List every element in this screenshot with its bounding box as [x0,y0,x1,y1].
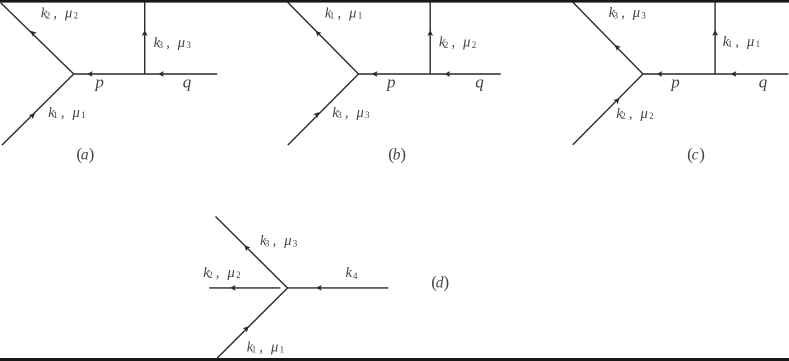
svg-text:3: 3 [159,40,164,50]
svg-text:1: 1 [358,11,363,21]
svg-text:): ) [89,145,95,164]
svg-text:,: , [735,34,739,50]
svg-text:1: 1 [756,39,761,49]
svg-text:2: 2 [649,111,654,121]
svg-text:1: 1 [728,39,733,49]
svg-text:3: 3 [186,40,191,50]
svg-text:3: 3 [614,10,619,20]
svg-text:,: , [216,265,220,281]
svg-text:): ) [444,273,450,292]
svg-text:q: q [183,73,192,92]
svg-text:1: 1 [330,11,335,21]
svg-text:): ) [699,145,705,164]
svg-text:2: 2 [444,40,449,50]
svg-text:2: 2 [208,270,213,280]
svg-text:3: 3 [293,238,298,248]
svg-text:2: 2 [236,270,241,280]
svg-text:p: p [386,73,396,92]
svg-text:): ) [400,145,406,164]
svg-text:c: c [692,147,699,164]
svg-text:p: p [670,73,680,92]
svg-text:p: p [94,73,104,92]
svg-text:μ: μ [746,34,754,50]
svg-text:q: q [475,73,484,92]
svg-text:μ: μ [227,265,235,281]
svg-text:,: , [338,5,342,21]
svg-text:1: 1 [81,110,86,120]
svg-text:2: 2 [472,40,477,50]
svg-text:,: , [452,35,456,51]
svg-text:2: 2 [46,11,51,21]
svg-text:,: , [53,5,57,21]
svg-text:3: 3 [365,110,370,120]
svg-text:1: 1 [252,345,257,355]
svg-text:,: , [259,340,263,356]
svg-text:2: 2 [74,11,79,21]
svg-text:μ: μ [632,5,640,21]
svg-text:2: 2 [621,111,626,121]
svg-text:3: 3 [641,10,646,20]
svg-text:μ: μ [462,35,470,51]
svg-text:μ: μ [356,105,364,121]
svg-text:k: k [346,265,353,281]
svg-text:μ: μ [640,106,648,122]
svg-text:μ: μ [348,5,356,21]
svg-text:μ: μ [64,5,72,21]
svg-text:3: 3 [265,238,270,248]
svg-text:3: 3 [337,110,342,120]
svg-text:q: q [759,73,768,92]
svg-text:1: 1 [53,110,58,120]
svg-text:,: , [273,233,277,249]
svg-text:1: 1 [280,345,285,355]
svg-text:,: , [629,106,633,122]
svg-text:4: 4 [353,271,358,281]
svg-text:μ: μ [72,105,80,121]
svg-text:μ: μ [283,233,291,249]
svg-text:μ: μ [177,35,185,51]
svg-text:,: , [621,5,625,21]
svg-text:μ: μ [270,340,278,356]
svg-text:,: , [166,35,170,51]
svg-text:,: , [61,105,65,121]
svg-text:,: , [345,105,349,121]
